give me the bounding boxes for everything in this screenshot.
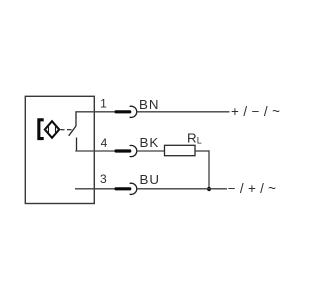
wire 4 (connector to resistor) bbox=[137, 150, 165, 152]
sensor diamond (proximity switch symbol) bbox=[45, 121, 59, 138]
svg-text:4: 4 bbox=[101, 136, 108, 150]
actuator dashed link bbox=[61, 129, 65, 131]
connector pin bar wire 3 bbox=[115, 187, 132, 190]
svg-text:L: L bbox=[197, 135, 202, 145]
svg-text:3: 3 bbox=[100, 172, 107, 186]
svg-text:+ / − / ~: + / − / ~ bbox=[231, 104, 280, 119]
wire 1 (connector to right) bbox=[137, 111, 230, 113]
resistor RL bbox=[165, 145, 196, 155]
inner right triangle bbox=[56, 126, 59, 133]
connector pin bar wire 4 bbox=[115, 149, 132, 152]
svg-text:R: R bbox=[187, 130, 197, 145]
connector socket arc wire 1 bbox=[130, 106, 137, 117]
svg-text:− / + / ~: − / + / ~ bbox=[228, 181, 276, 196]
wire 4 (inside box to connector) bbox=[75, 150, 115, 152]
connector socket arc wire 4 bbox=[130, 145, 137, 156]
connector pin bar wire 1 bbox=[115, 110, 132, 113]
switch lower terminal bbox=[76, 138, 78, 152]
wire 3 (connector to right) bbox=[137, 188, 228, 190]
inner left triangle bbox=[45, 126, 48, 133]
svg-text:BK: BK bbox=[140, 135, 160, 150]
wire 3 (inside box to connector) bbox=[75, 188, 116, 190]
wire resistor to corner bbox=[195, 150, 209, 152]
junction dot bbox=[207, 187, 211, 191]
switch blade bbox=[69, 126, 76, 136]
svg-text:BU: BU bbox=[140, 172, 160, 187]
svg-text:1: 1 bbox=[100, 97, 107, 111]
sensor enclosure box bbox=[25, 96, 94, 203]
wire corner down to BU line bbox=[208, 150, 210, 189]
sensor symbol bracket (magnet actuation bracket) bbox=[37, 118, 43, 140]
wire 1 (inside box to connector) bbox=[75, 111, 115, 113]
switch upper terminal bbox=[75, 112, 77, 126]
connector socket arc wire 3 bbox=[130, 183, 137, 194]
svg-text:BN: BN bbox=[139, 97, 159, 112]
